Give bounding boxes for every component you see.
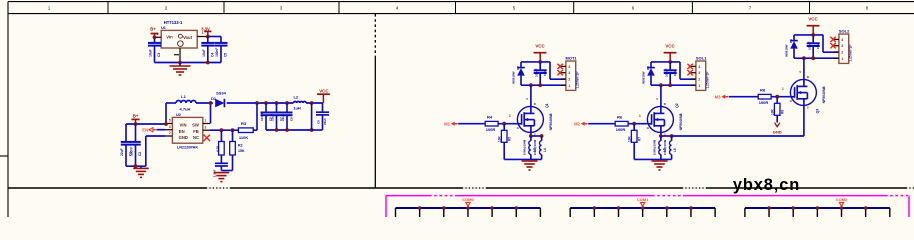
wire R3 to output riser: [253, 129, 257, 131]
sheet bottom border: [8, 187, 914, 189]
gate wire: [729, 96, 759, 98]
svg-text:1uH: 1uH: [293, 106, 301, 111]
capacitor C12 100nF: [807, 35, 821, 58]
svg-text:3: 3: [698, 71, 700, 75]
U1 pin 2 stub (Vin): [155, 36, 162, 38]
svg-text:VCC: VCC: [665, 44, 675, 49]
svg-text:VIN: VIN: [180, 123, 187, 128]
source wire: [530, 132, 532, 136]
svg-text:R8: R8: [760, 88, 766, 93]
svg-text:VCC: VCC: [808, 17, 818, 22]
ferrite bead L3 100R@100M: [522, 136, 536, 159]
svg-text:3: 3: [841, 44, 843, 48]
svg-text:NC: NC: [193, 135, 199, 140]
Q3 source wire to shared node: [803, 105, 805, 136]
gate wire to MOSFET: [771, 96, 790, 98]
port M3: [715, 94, 729, 99]
wire L1 to D1: [196, 102, 213, 104]
pulldown to ground rail: [503, 142, 505, 159]
svg-text:R7: R7: [638, 137, 642, 141]
svg-text:C3: C3: [157, 53, 161, 57]
wire down to C1: [125, 124, 127, 142]
svg-text:VCC: VCC: [535, 44, 545, 49]
svg-text:U1: U1: [161, 26, 166, 30]
VCC top wire: [794, 34, 823, 36]
pulldown to ground rail: [633, 142, 635, 159]
wire VCC to connector pin 2: [549, 62, 551, 79]
svg-text:2: 2: [841, 51, 843, 55]
svg-text:4: 4: [568, 65, 570, 69]
svg-text:10uF: 10uF: [202, 49, 206, 56]
source ground rail: [634, 158, 671, 160]
svg-text:10uF: 10uF: [149, 49, 153, 56]
output ground rail: [266, 129, 312, 131]
power port B+ at U1 input: [150, 26, 158, 37]
svg-text:Q1: Q1: [545, 103, 549, 108]
svg-text:100R@100M: 100R@100M: [533, 140, 537, 155]
svg-text:C5: C5: [224, 53, 228, 57]
MOSFET Q1 NP5040M8: [509, 97, 553, 136]
wire EN to U2: [156, 129, 165, 131]
connector SOL2: [834, 28, 853, 63]
svg-text:C2: C2: [138, 152, 142, 156]
svg-text:22uF: 22uF: [281, 114, 285, 121]
svg-text:100R: 100R: [486, 127, 496, 132]
MOSFET Q3 NP5040M8: [782, 70, 826, 113]
svg-text:R5: R5: [508, 137, 512, 141]
svg-text:C4: C4: [210, 53, 214, 57]
svg-text:R3: R3: [241, 121, 247, 126]
drain junction wire: [651, 84, 696, 86]
port COM1: [637, 197, 649, 206]
svg-text:100nF: 100nF: [130, 147, 134, 156]
svg-text:D1: D1: [211, 96, 217, 101]
junction: [206, 35, 210, 39]
VCC top wire: [651, 61, 680, 63]
svg-text:IN5819W: IN5819W: [511, 71, 515, 84]
svg-text:M1: M1: [444, 121, 450, 126]
R9 bottom to GND power port: [773, 115, 782, 134]
svg-text:1.25mm*2P: 1.25mm*2P: [576, 71, 580, 89]
gate wire to MOSFET: [628, 123, 647, 125]
connector MOT1: [561, 55, 580, 90]
output capacitor C7 22uF: [276, 103, 278, 113]
wire GND pin to ground: [146, 135, 166, 137]
input ground rail: [126, 165, 146, 167]
svg-text:1: 1: [639, 114, 641, 118]
ferrite bead L4 100R@100M: [533, 136, 547, 159]
svg-text:GND: GND: [773, 129, 782, 134]
diode D2 IN5819W: [511, 62, 524, 85]
common rail for COM0: [396, 206, 541, 217]
wire SW riser: [210, 103, 212, 124]
drain wire: [530, 85, 532, 106]
common rail for COM2: [745, 206, 890, 217]
no-connect X marks on SOL2 pins 4,3: [830, 37, 835, 42]
diode D3 IN5819W: [641, 62, 654, 85]
U1 pin 3 stub (Vout): [197, 36, 208, 38]
port M1: [444, 121, 458, 126]
capacitor C4 2.2nF (FB): [213, 155, 228, 177]
svg-text:4.7uH: 4.7uH: [180, 107, 191, 112]
svg-text:10K: 10K: [498, 135, 502, 142]
wire 3.3V rail to C5: [208, 36, 221, 38]
svg-text:L4: L4: [543, 148, 547, 152]
svg-text:EN: EN: [179, 129, 185, 134]
regulator U1 HT7133-1 chip body: [161, 20, 197, 48]
svg-text:EN: EN: [142, 127, 148, 132]
svg-text:Vout: Vout: [183, 35, 193, 40]
svg-text:IN5819W: IN5819W: [784, 44, 788, 57]
ground symbol for driver: [522, 161, 538, 170]
svg-text:HT7133-1: HT7133-1: [164, 20, 183, 25]
port M2: [574, 121, 588, 126]
U2 pin stubs: [165, 119, 210, 136]
sheet border column numbers 1-8: [48, 6, 869, 11]
svg-text:1: 1: [205, 119, 207, 123]
svg-text:5: 5: [169, 119, 171, 123]
gate wire: [588, 123, 615, 125]
ground symbol for U1: [179, 63, 181, 66]
svg-text:L2: L2: [293, 95, 298, 100]
capacitor C1 22uF: [125, 141, 127, 143]
ground rail under U1: [155, 62, 222, 64]
drain junction wire: [794, 57, 839, 59]
diode D4 IN5819W: [784, 35, 797, 58]
svg-text:15K: 15K: [238, 149, 245, 153]
wire VCC to connector pin 2: [822, 35, 824, 52]
wire L2 to VCC: [306, 102, 322, 104]
output capacitor C8 22uF: [286, 103, 288, 113]
svg-text:3: 3: [568, 71, 570, 75]
svg-text:2: 2: [698, 78, 700, 82]
svg-text:COM2: COM2: [836, 197, 848, 202]
ground symbol for U2 input: [140, 166, 142, 168]
gate wire: [458, 123, 485, 125]
svg-text:U2: U2: [176, 113, 181, 117]
resistor R7 10K pulldown: [628, 124, 642, 143]
svg-text:R9: R9: [781, 110, 785, 114]
svg-text:COM0: COM0: [462, 197, 474, 202]
source wire: [660, 132, 662, 136]
resistor R9 10K pulldown: [771, 97, 785, 116]
svg-text:4: 4: [841, 38, 843, 42]
drain junction wire: [521, 84, 566, 86]
svg-text:10K: 10K: [771, 108, 775, 115]
magenta selection box: [386, 196, 909, 217]
wire U1 input down: [154, 37, 156, 42]
diode D1 SS34: [211, 91, 227, 108]
no-connect X marks on SOL1 pins 4,3: [687, 64, 692, 69]
svg-text:3: 3: [202, 31, 204, 35]
power port VCC for SOL1 driver: [664, 44, 677, 62]
svg-text:SOL2: SOL2: [839, 28, 850, 33]
wire to L1: [166, 102, 176, 104]
svg-text:D3: D3: [646, 66, 650, 70]
svg-text:M2: M2: [574, 121, 580, 126]
resistor R4 100R: [485, 115, 498, 132]
capacitor C4 10uF: [207, 37, 209, 43]
svg-text:100nF: 100nF: [215, 48, 219, 57]
sheet border left margin tick: [0, 155, 8, 157]
svg-text:SS34: SS34: [216, 91, 227, 96]
ground symbol FB network: [214, 173, 230, 182]
svg-text:C8: C8: [290, 117, 294, 121]
svg-text:ybx8,cn: ybx8,cn: [733, 176, 800, 194]
svg-text:10K: 10K: [628, 135, 632, 142]
svg-text:100nF: 100nF: [535, 68, 539, 77]
no-connect X marks on MOT1 pins 4,3: [557, 64, 562, 69]
svg-text:SOL1: SOL1: [696, 55, 707, 60]
svg-text:R4: R4: [487, 115, 493, 120]
drain wire: [660, 85, 662, 106]
svg-text:MOT1: MOT1: [566, 55, 578, 60]
svg-text:100R@100M: 100R@100M: [522, 140, 526, 155]
svg-text:B+: B+: [150, 26, 156, 31]
sheet border left edge: [7, 2, 9, 217]
svg-text:110K: 110K: [239, 135, 248, 140]
gate wire to MOSFET: [498, 123, 517, 125]
svg-text:Q2: Q2: [675, 103, 679, 108]
svg-text:L1: L1: [181, 94, 186, 99]
riser at output rail: [311, 103, 313, 130]
capacitor C10 100nF: [534, 62, 548, 85]
power port VCC for SOL2 driver: [807, 17, 820, 35]
wire FB row: [210, 129, 238, 131]
svg-text:100R@100M: 100R@100M: [663, 140, 667, 155]
resistor R1 4.7K (FB comp): [216, 130, 225, 155]
svg-text:100R@100M: 100R@100M: [652, 140, 656, 155]
svg-text:2: 2: [169, 131, 171, 135]
capacitor C2 100nF: [135, 124, 137, 142]
output capacitor C6 100nF: [265, 103, 267, 113]
wire B+ node to VIN: [126, 123, 165, 125]
ferrite bead L6 100R@100M: [663, 136, 677, 159]
svg-text:22uF: 22uF: [271, 114, 275, 121]
inductor L1 4.7uH: [176, 94, 196, 111]
svg-text:C9: C9: [317, 120, 321, 124]
resistor R5 10K pulldown: [498, 124, 512, 143]
svg-text:IN5819W: IN5819W: [641, 71, 645, 84]
port COM0: [462, 197, 474, 206]
svg-text:22uF: 22uF: [323, 118, 327, 125]
ground symbol for driver: [652, 161, 668, 170]
common rail for COM1: [570, 206, 715, 217]
wire VIN node riser to L1: [165, 103, 167, 124]
svg-text:1: 1: [698, 84, 700, 88]
svg-text:Q3: Q3: [815, 109, 819, 114]
shared source wire from L5/L6 node to Q3: [672, 135, 804, 137]
svg-text:100R: 100R: [616, 127, 626, 132]
connector SOL1: [691, 55, 710, 90]
svg-text:22uF: 22uF: [120, 148, 124, 155]
svg-text:GND: GND: [179, 135, 188, 140]
svg-text:1.25mm*2P: 1.25mm*2P: [706, 71, 710, 89]
svg-text:LN2220PAK: LN2220PAK: [177, 145, 199, 149]
svg-text:B+: B+: [133, 114, 139, 119]
resistor R3 110K: [238, 121, 253, 140]
svg-text:1: 1: [782, 87, 784, 91]
sheet border top lines: [8, 1, 914, 3]
svg-text:D4: D4: [789, 39, 793, 43]
MOSFET Q2 NP5040M8: [639, 97, 683, 136]
svg-text:100nF: 100nF: [808, 41, 812, 50]
output top wire: [227, 102, 294, 104]
svg-text:D2: D2: [516, 66, 520, 70]
capacitor C9 22uF: [312, 103, 329, 130]
svg-text:FB: FB: [193, 129, 199, 134]
power port B+ at U2: [131, 114, 139, 124]
VCC top wire: [521, 61, 550, 63]
svg-text:3: 3: [205, 125, 207, 129]
power port VCC for MOT1 driver: [534, 44, 547, 62]
sheet border column ticks: [108, 2, 810, 14]
dotted segments on bottom border: [206, 187, 914, 189]
power port VCC main: [317, 88, 330, 103]
svg-text:100R: 100R: [759, 100, 769, 105]
svg-text:Vin: Vin: [166, 35, 173, 40]
svg-text:1: 1: [509, 114, 511, 118]
vertical region divider: [374, 14, 376, 56]
svg-text:1: 1: [841, 57, 843, 61]
svg-text:1: 1: [568, 84, 570, 88]
svg-text:4.7K: 4.7K: [216, 145, 220, 152]
svg-text:100nF: 100nF: [260, 112, 264, 121]
source ground rail: [504, 158, 541, 160]
svg-text:4: 4: [698, 65, 700, 69]
U1 GND pin stub: [179, 48, 181, 63]
svg-text:2: 2: [568, 78, 570, 82]
drain wire: [803, 58, 805, 79]
svg-text:M3: M3: [715, 94, 721, 99]
resistor R6 100R: [615, 115, 628, 132]
power port 3.3V at U1 output: [201, 26, 211, 36]
svg-text:L6: L6: [673, 148, 677, 152]
svg-text:NP5040M8: NP5040M8: [679, 113, 683, 130]
svg-text:C11: C11: [673, 70, 677, 76]
resistor R8 100R: [758, 88, 771, 105]
svg-text:C12: C12: [816, 43, 820, 49]
svg-text:R6: R6: [617, 115, 623, 120]
svg-text:VCC: VCC: [319, 88, 329, 93]
ferrite bead L5 100R@100M: [652, 136, 666, 159]
inductor L2 1uH: [293, 95, 306, 111]
resistor R2 15K: [230, 130, 245, 155]
port COM2: [836, 197, 848, 206]
capacitor C3 10uF: [154, 41, 156, 44]
port EN: [142, 127, 156, 132]
svg-text:SW: SW: [192, 123, 199, 128]
svg-text:4: 4: [169, 125, 171, 129]
wire R2 bottom to ground node: [232, 155, 234, 171]
svg-text:COM1: COM1: [637, 197, 649, 202]
capacitor C5 100nF: [220, 37, 222, 43]
regulator U2 LN2220PAK chip body: [172, 113, 202, 149]
svg-text:R2: R2: [238, 144, 243, 148]
svg-text:C10: C10: [543, 70, 547, 76]
wire VCC to connector pin 2: [679, 62, 681, 79]
capacitor C11 100nF: [664, 62, 678, 85]
svg-text:NP5040M8: NP5040M8: [822, 86, 826, 103]
svg-text:100nF: 100nF: [665, 68, 669, 77]
svg-text:NP5040M8: NP5040M8: [549, 113, 553, 130]
svg-text:1.25mm*2P: 1.25mm*2P: [849, 44, 853, 62]
no-connect X on U2 NC pin: [204, 135, 210, 141]
